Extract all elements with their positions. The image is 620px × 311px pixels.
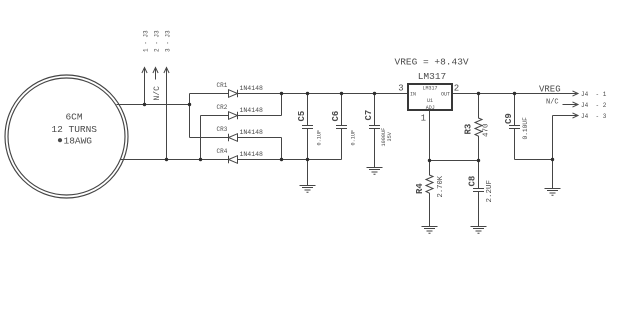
svg-text:CR3: CR3 <box>217 126 228 133</box>
connector J4 pin 2 arrow <box>563 102 579 107</box>
svg-text:J4: J4 <box>581 113 589 120</box>
svg-text:C8: C8 <box>468 176 478 187</box>
wire ADJ node row <box>430 160 479 162</box>
svg-text:ADJ: ADJ <box>426 105 435 111</box>
svg-text:2.2UF: 2.2UF <box>486 180 494 203</box>
svg-text:0.10UF: 0.10UF <box>522 117 529 140</box>
svg-text:C5: C5 <box>297 111 307 122</box>
regulator U1 LM317 box <box>408 84 452 110</box>
svg-text:1N4148: 1N4148 <box>240 107 264 114</box>
svg-text:VREG = +8.43V: VREG = +8.43V <box>395 57 469 68</box>
wire LM317 OUT rail to J4-1 <box>453 93 577 95</box>
svg-text:C9: C9 <box>504 113 514 124</box>
capacitor C8 <box>478 161 480 227</box>
coil L1 (6CM 12 TURNS loop antenna) <box>5 75 128 198</box>
svg-text:- 3: - 3 <box>596 113 607 120</box>
wire CR3 row <box>190 137 282 139</box>
svg-text:35V: 35V <box>387 131 393 141</box>
svg-text:N/C: N/C <box>546 99 559 107</box>
svg-text:3 - J3: 3 - J3 <box>165 30 172 52</box>
svg-text:1N4148: 1N4148 <box>240 85 264 92</box>
node C5 top <box>306 92 309 95</box>
resistor R3 470 <box>475 94 482 161</box>
ground at J4/C9 node <box>545 189 561 196</box>
capacitor C5 <box>307 94 309 186</box>
node ADJ left <box>428 159 431 162</box>
ground below C5 <box>300 186 316 193</box>
svg-text:CR4: CR4 <box>217 148 228 155</box>
capacitor C7 <box>374 94 376 168</box>
svg-text:1 - J3: 1 - J3 <box>143 30 150 52</box>
svg-text:C6: C6 <box>331 111 341 122</box>
svg-text:- 2: - 2 <box>596 102 607 109</box>
connector J3 pin 3 arrow <box>164 68 169 160</box>
wire bottom rail (row E) <box>121 159 342 161</box>
coil text bullet <box>58 138 62 142</box>
diode CR3 1N4148 <box>229 134 238 142</box>
svg-text:VREG: VREG <box>539 85 561 95</box>
node J3-3 on row E <box>165 158 168 161</box>
svg-text:18AWG: 18AWG <box>64 135 93 146</box>
node ADJ right <box>477 159 480 162</box>
svg-text:CR1: CR1 <box>217 82 228 89</box>
node C5 bottom <box>306 158 309 161</box>
ground below C7 <box>367 168 383 175</box>
svg-text:0.1UF: 0.1UF <box>317 130 323 146</box>
node C7 top <box>373 92 376 95</box>
svg-text:IN: IN <box>410 92 416 98</box>
connector J4 pin 1 arrow <box>573 91 579 96</box>
node bridge vertical on row B <box>188 103 191 106</box>
capacitor C6 <box>341 94 343 160</box>
wire CR2 row <box>201 115 282 117</box>
svg-text:R4: R4 <box>415 183 425 194</box>
wire J4-3 vertical to ground <box>552 116 554 189</box>
node J3-1 on row B <box>143 103 146 106</box>
svg-text:470: 470 <box>483 123 491 137</box>
wire C9 bottom to ground node <box>515 159 553 161</box>
svg-text:2: 2 <box>454 84 459 94</box>
diode CR2 1N4148 <box>229 112 238 120</box>
svg-text:2.70K: 2.70K <box>437 175 445 197</box>
svg-text:C7: C7 <box>364 110 374 121</box>
node CR3/CR4 anodes <box>280 158 283 161</box>
svg-text:0.1UF: 0.1UF <box>351 130 357 146</box>
svg-text:1N4148: 1N4148 <box>240 129 264 136</box>
svg-text:CR2: CR2 <box>217 104 228 111</box>
svg-text:OUT: OUT <box>441 92 450 98</box>
diode CR4 1N4148 <box>229 156 238 164</box>
svg-text:J4: J4 <box>581 91 589 98</box>
node CR2 vertical on row E <box>199 158 202 161</box>
connector J3 pin 2 arrow (N/C) <box>153 68 158 80</box>
wire vertical CR2-anode to bottom rail <box>200 116 202 160</box>
node C9 top <box>513 92 516 95</box>
ground below C8 <box>471 227 487 234</box>
wire vertical CR1/CR2 cathode join <box>281 94 283 116</box>
svg-text:- 1: - 1 <box>596 91 607 98</box>
node C9 ground <box>551 158 554 161</box>
node CR1/CR2 cathodes <box>280 92 283 95</box>
connector J3 pin 1 arrow <box>142 68 147 105</box>
ground below R4 <box>422 227 438 234</box>
svg-text:12 TURNS: 12 TURNS <box>51 124 97 135</box>
svg-text:LM317: LM317 <box>422 85 437 91</box>
svg-text:1N4148: 1N4148 <box>240 151 264 158</box>
wire coil top (row B) <box>117 104 190 106</box>
node C6 top <box>340 92 343 95</box>
diode CR1 1N4148 <box>229 90 238 98</box>
svg-text:J4: J4 <box>581 102 589 109</box>
svg-text:U1: U1 <box>427 98 433 104</box>
resistor R4 2.70K <box>426 161 433 227</box>
svg-text:R3: R3 <box>464 124 474 135</box>
svg-text:N/C: N/C <box>153 86 162 101</box>
wire vertical CR3/CR4 anode join <box>281 138 283 160</box>
node R3 top <box>477 92 480 95</box>
wire LM317 ADJ pin down <box>429 111 431 161</box>
svg-text:3: 3 <box>398 84 403 94</box>
capacitor C9 <box>514 94 516 160</box>
svg-text:LM317: LM317 <box>418 71 447 82</box>
wire vertical CR1-anode to CR3-cathode <box>189 94 191 138</box>
connector J4 pin 3 arrow <box>553 113 579 118</box>
svg-text:1: 1 <box>421 113 426 123</box>
svg-text:6CM: 6CM <box>65 112 82 123</box>
svg-text:2 - J3: 2 - J3 <box>154 30 161 52</box>
wire top rail to LM317 IN <box>190 93 408 95</box>
